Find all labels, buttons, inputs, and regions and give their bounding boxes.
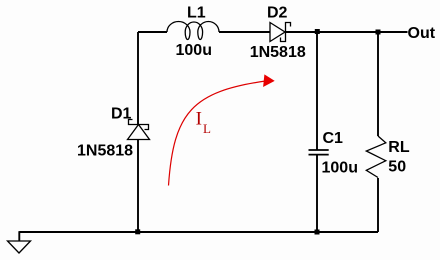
svg-text:L1: L1 [187,5,206,22]
svg-text:D1: D1 [111,105,132,122]
svg-text:D2: D2 [267,5,288,22]
svg-text:100u: 100u [176,42,212,59]
svg-text:I: I [196,109,202,130]
svg-text:L: L [203,121,211,136]
svg-text:C1: C1 [323,130,344,147]
svg-text:100u: 100u [322,159,358,176]
svg-text:50: 50 [388,158,406,175]
svg-text:RL: RL [388,139,410,156]
svg-text:1N5818: 1N5818 [250,44,306,61]
svg-text:1N5818: 1N5818 [77,143,133,160]
svg-text:Out: Out [408,25,436,42]
